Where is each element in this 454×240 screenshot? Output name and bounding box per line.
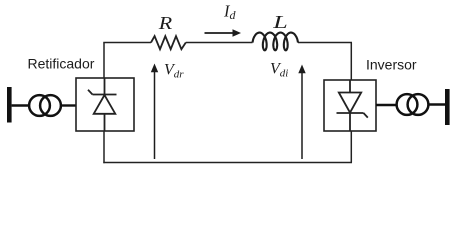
thyristor valve V1 (rectifier) <box>88 78 117 131</box>
current arrow Id <box>205 29 242 37</box>
voltage arrow Vdi <box>298 65 305 160</box>
resistor R <box>151 36 186 49</box>
wire transformer T1 to rectifier box <box>61 104 76 106</box>
wire rectifier box top to DC line <box>103 43 105 79</box>
wire inductor to right corner <box>298 42 352 44</box>
bus bar right (AC bus) <box>445 89 450 125</box>
voltage arrow Vdr <box>151 64 158 160</box>
svg-text:L: L <box>272 12 288 32</box>
thyristor valve V2 (inverter) <box>337 80 368 131</box>
transformer T1 <box>29 95 61 116</box>
wire bus to transformer T1 <box>12 104 29 106</box>
wire resistor to inductor <box>186 42 253 44</box>
inductor L <box>253 33 299 51</box>
wire bottom DC line <box>103 162 352 164</box>
svg-text:Id: Id <box>223 1 237 22</box>
wire inverter box to transformer T2 <box>376 104 397 106</box>
svg-text:Vdi: Vdi <box>270 61 288 80</box>
svg-text:Vdr: Vdr <box>164 62 184 81</box>
rectifier box U1 <box>76 78 134 131</box>
wire rectifier box bottom to bottom DC line <box>103 131 105 163</box>
svg-text:Inversor: Inversor <box>366 57 417 73</box>
bus bar left (AC bus) <box>7 87 12 123</box>
transformer T2 <box>397 94 429 115</box>
svg-text:R: R <box>158 14 173 34</box>
wire DC line to inverter box top <box>350 43 352 81</box>
inverter box U2 <box>324 80 376 131</box>
wire transformer T2 to bus <box>428 103 445 105</box>
wire inverter box bottom to bottom DC line <box>350 131 352 163</box>
svg-text:Retificador: Retificador <box>28 56 95 72</box>
wire DC line top left segment <box>103 42 151 44</box>
